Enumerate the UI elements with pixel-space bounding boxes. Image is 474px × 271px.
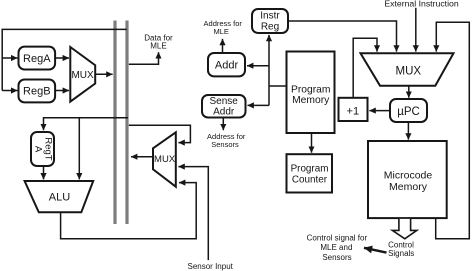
wire decoder junction to Sense Addr bbox=[248, 104, 270, 106]
svg-text:MUX: MUX bbox=[396, 66, 422, 78]
wire external instruction to MUX M3 bbox=[415, 8, 417, 52]
mux M3 bbox=[361, 53, 454, 85]
svg-text:Sensor Input: Sensor Input bbox=[188, 262, 234, 271]
wire +1 feedback to MUX M3 bbox=[353, 38, 377, 98]
wire bus to MUX M2 top input bbox=[129, 125, 191, 142]
wire bus to RegT bbox=[44, 118, 129, 130]
svg-text:MUX: MUX bbox=[154, 154, 176, 165]
svg-text:+1: +1 bbox=[347, 106, 360, 118]
memory Program Memory bbox=[287, 52, 335, 134]
svg-text:Counter: Counter bbox=[292, 174, 328, 185]
wire bus branch to ALU bbox=[78, 118, 80, 180]
wire MUX M1 to bus bbox=[95, 73, 112, 75]
svg-text:ALU: ALU bbox=[49, 191, 70, 203]
svg-text:Control signal for: Control signal for bbox=[307, 233, 368, 242]
adder +1 bbox=[339, 98, 368, 121]
svg-text:Reg: Reg bbox=[261, 22, 279, 33]
wire uPC to Microcode Memory bbox=[407, 122, 409, 140]
label Data for MLE bbox=[144, 33, 173, 50]
alu ALU bbox=[25, 181, 94, 212]
bus bar left bbox=[113, 21, 116, 225]
wire RegA to MUX M1 bbox=[55, 57, 69, 59]
wire RegT to ALU bbox=[43, 166, 45, 179]
svg-text:Sensors: Sensors bbox=[211, 140, 239, 149]
counter Program Counter bbox=[287, 154, 333, 192]
svg-text:Program: Program bbox=[291, 84, 330, 95]
control signals block arrow bbox=[392, 219, 416, 239]
wire into RegA bbox=[2, 57, 17, 59]
register RegT A bbox=[31, 132, 54, 166]
wire Program Memory to Program Counter bbox=[311, 133, 313, 153]
svg-text:RegB: RegB bbox=[23, 85, 51, 97]
wire uPC to +1 bbox=[369, 110, 390, 112]
wire MUX M3 to uPC bbox=[408, 86, 410, 98]
svg-text:MLE: MLE bbox=[213, 27, 228, 36]
mux M1 bbox=[70, 47, 95, 102]
svg-text:µPC: µPC bbox=[397, 106, 420, 118]
svg-text:Sensors: Sensors bbox=[322, 253, 351, 262]
wire ALU output to MUX M2 bbox=[61, 183, 197, 239]
svg-text:MUX: MUX bbox=[71, 70, 94, 81]
register Sense Addr bbox=[202, 95, 246, 118]
svg-text:Addr: Addr bbox=[213, 106, 235, 117]
svg-text:Memory: Memory bbox=[389, 181, 428, 193]
svg-text:Instr: Instr bbox=[260, 11, 280, 22]
svg-text:Signals: Signals bbox=[388, 249, 414, 258]
wire RegB to MUX M1 bbox=[55, 90, 69, 92]
wire Program Memory to decoder junction bbox=[269, 85, 287, 87]
register uPC bbox=[390, 99, 427, 122]
wire bus to RegA/RegB loop bbox=[2, 29, 126, 90]
svg-text:RegA: RegA bbox=[23, 53, 51, 65]
annotation arrow Control Signals to MLE label bbox=[364, 248, 387, 253]
wire decoder junction to Instr Reg bbox=[268, 35, 270, 106]
wire Instr Reg to MUX M3 bbox=[288, 21, 397, 52]
wire microcode feedback loop to MUX M3 bbox=[436, 22, 470, 239]
bus bar right bbox=[125, 21, 128, 225]
svg-text:Memory: Memory bbox=[292, 95, 330, 106]
label Control Signals bbox=[388, 241, 414, 258]
register RegA bbox=[19, 47, 56, 70]
register RegB bbox=[19, 80, 56, 103]
register Instr Reg bbox=[252, 9, 288, 33]
svg-text:External Instruction: External Instruction bbox=[384, 0, 459, 8]
wire into RegB bbox=[2, 90, 17, 92]
label Control signal for MLE and Sensors bbox=[307, 233, 368, 262]
svg-text:Microcode: Microcode bbox=[384, 169, 433, 181]
svg-text:MLE and: MLE and bbox=[320, 243, 352, 252]
wire Addr to Address for MLE bbox=[222, 39, 224, 53]
wire Sense Addr to Address for Sensors bbox=[222, 118, 224, 131]
svg-text:Program: Program bbox=[291, 163, 329, 174]
svg-text:Addr: Addr bbox=[215, 60, 239, 72]
svg-text:MLE: MLE bbox=[150, 42, 166, 51]
label Address for MLE bbox=[204, 19, 243, 36]
wire decoder junction to Addr bbox=[247, 65, 269, 67]
wire sensor input to MUX M2 bbox=[178, 167, 208, 261]
wire bus to Data for MLE bbox=[129, 52, 159, 64]
wire MUX M2 output to bus bbox=[131, 156, 153, 158]
register Addr bbox=[208, 53, 245, 76]
svg-text:A: A bbox=[33, 146, 44, 153]
mux M2 bbox=[153, 132, 176, 186]
memory Microcode Memory bbox=[368, 141, 447, 218]
label Address for Sensors bbox=[207, 132, 246, 149]
